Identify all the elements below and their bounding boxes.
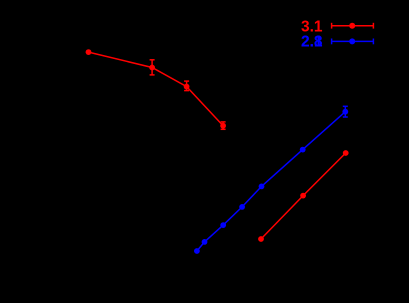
series C (red rising) — [261, 153, 346, 239]
point B6 — [300, 147, 306, 153]
wire red line A — [89, 52, 224, 126]
legend sample 2.8 — [332, 39, 374, 45]
error bar A2 — [150, 60, 155, 75]
point C3 — [343, 150, 349, 156]
point B7 — [342, 109, 348, 115]
point A4 — [220, 123, 226, 129]
point C1 — [258, 236, 264, 242]
point A1 — [86, 49, 92, 55]
error bar B7 — [343, 106, 348, 117]
point B3 — [220, 222, 226, 228]
error bar A3 — [184, 81, 189, 91]
point C2 — [300, 193, 306, 199]
point B5 — [259, 184, 265, 190]
wire blue line B — [197, 112, 345, 251]
series R1 (red declining, with yerrorbars) — [89, 52, 226, 129]
point B1 — [194, 248, 200, 254]
wire red line C — [261, 153, 346, 239]
point B2 — [202, 239, 208, 245]
series B (blue rising, with yerrorbars) — [197, 106, 348, 251]
legend point 3.1 — [349, 23, 355, 29]
point A2 — [149, 65, 155, 71]
error bar A4 — [221, 122, 226, 129]
point A3 — [184, 84, 190, 90]
svg-text:2.1: 2.1 — [301, 34, 323, 51]
legend point 2.8 — [349, 38, 355, 44]
point B4 — [239, 204, 245, 210]
legend sample 3.1 — [332, 23, 374, 29]
